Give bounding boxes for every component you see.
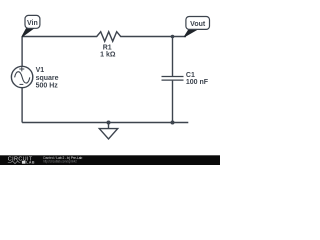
svg-text:R1: R1 [103,44,112,51]
wire bottom rail [22,122,188,124]
svg-text:100 nF: 100 nF [186,79,209,86]
node junction at ground [107,121,111,125]
resistor R1 [95,32,123,42]
wire top-right horizontal (R1 to Vout anchor) [123,36,187,38]
label C1 value [186,72,209,86]
node junction at Vout [171,35,175,39]
watermark bar [0,155,220,165]
svg-text:http://circuitlab.com/cqmh42: http://circuitlab.com/cqmh42 [43,160,77,164]
svg-text:V1: V1 [36,67,45,74]
svg-text:Vin: Vin [27,20,38,27]
ground [99,123,117,140]
node junction at C1 bottom / rail [171,121,175,125]
wire left vertical upper (Vin node to V1) [21,37,23,67]
svg-text:LAB: LAB [26,161,35,165]
wire top-left horizontal (Vin node to R1) [22,36,94,38]
label V1 value [36,67,59,90]
svg-text:1 kΩ: 1 kΩ [100,52,116,59]
flag Vin [22,15,40,36]
label R1 value [100,44,116,58]
svg-text:500 Hz: 500 Hz [36,83,59,90]
wire right vertical lower (C1 to bottom rail) [172,81,174,123]
flag Vout [184,17,209,37]
svg-text:Vout: Vout [190,21,206,28]
capacitor C1 [162,77,184,81]
wire right vertical upper (Vout node to C1) [172,37,174,77]
svg-text:square: square [36,75,59,82]
wire left vertical lower (V1 to bottom rail) [21,88,23,123]
voltage source V1 [11,66,32,87]
